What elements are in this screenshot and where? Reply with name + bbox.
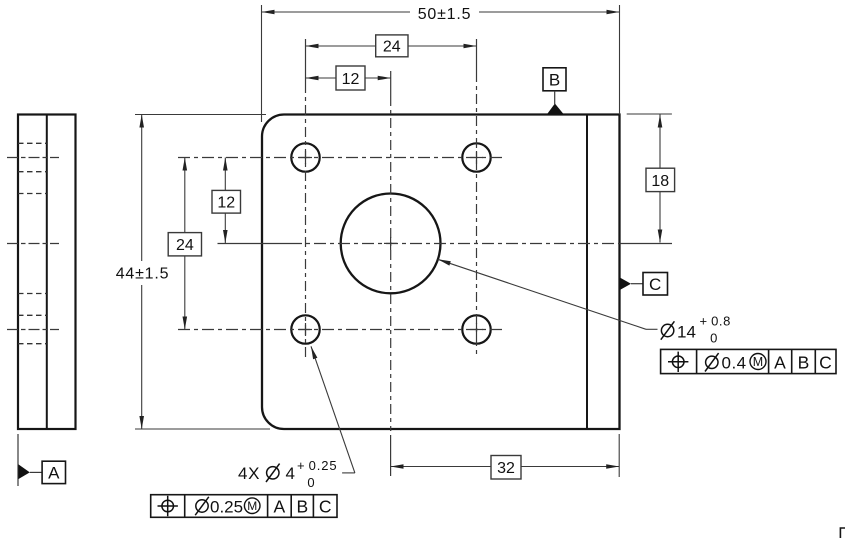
- svg-text:A: A: [48, 464, 60, 483]
- dim 32 box: [491, 456, 521, 480]
- dim 18 arrows: [658, 115, 663, 243]
- datum B box: [543, 68, 566, 91]
- datum C triangle: [620, 278, 631, 291]
- hole center crosses: [299, 151, 483, 336]
- dim 50 line: [262, 11, 620, 13]
- dim 32 arrows: [391, 464, 620, 469]
- datum A extension line: [17, 434, 19, 486]
- dim 24 left line: [184, 158, 186, 330]
- hidden line top hole lower: [18, 171, 47, 173]
- fcf1 M circle: [244, 498, 260, 514]
- side view inner edge line: [46, 115, 48, 430]
- fcf1 position symbol: [158, 496, 178, 516]
- svg-text:12: 12: [217, 195, 235, 212]
- datum A box: [42, 461, 65, 483]
- leader arrow small hole: [311, 346, 317, 359]
- centerline side top holes: [7, 157, 59, 159]
- svg-text:B: B: [549, 71, 560, 90]
- dim 18 extension top: [627, 113, 672, 115]
- svg-text:C: C: [319, 496, 332, 516]
- side view outline: [18, 115, 76, 430]
- svg-text:0.4: 0.4: [722, 354, 747, 373]
- svg-text:50±1.5: 50±1.5: [418, 6, 472, 23]
- datum B leader: [554, 91, 556, 104]
- dim 12 left box: [212, 190, 241, 213]
- dim 24 top box: [376, 35, 408, 57]
- datum A triangle: [18, 464, 30, 479]
- fcf2 M circle: [750, 354, 766, 370]
- dim 24 left arrows: [183, 158, 188, 330]
- big center hole: [341, 194, 441, 294]
- plate outline: [262, 115, 620, 430]
- centerline side big hole: [7, 243, 59, 245]
- dim 44 arrows: [139, 115, 144, 430]
- datum B triangle: [547, 104, 564, 115]
- dim 12 left arrows: [223, 158, 228, 244]
- dim 50 extension line right: [619, 5, 621, 115]
- dim 18 box: [646, 168, 675, 191]
- svg-text:M: M: [247, 499, 257, 513]
- dim 12 left line: [224, 158, 226, 244]
- datum C box: [643, 273, 668, 296]
- centerline horizontal plate center: [218, 243, 673, 245]
- svg-text:14: 14: [677, 323, 696, 342]
- fcf1 diameter symbol: [195, 497, 209, 515]
- svg-text:C: C: [819, 353, 832, 373]
- hidden line big hole lower: [18, 293, 47, 295]
- dim 24 top line: [306, 45, 477, 47]
- svg-text:18: 18: [651, 173, 669, 190]
- dim 24 top arrows: [306, 44, 477, 49]
- svg-text:B: B: [798, 353, 810, 373]
- fcf1 outer box: [151, 495, 337, 518]
- svg-text:C: C: [649, 275, 661, 294]
- callout Ø14 diameter symbol: [661, 321, 675, 339]
- dim 12 top box: [336, 66, 365, 90]
- svg-text:24: 24: [383, 39, 401, 56]
- svg-text:24: 24: [176, 237, 194, 254]
- dim 50 extension line left: [261, 5, 263, 122]
- hole bottom-right: [462, 315, 490, 343]
- svg-text:A: A: [774, 353, 786, 373]
- centerline side bottom holes: [7, 329, 59, 331]
- leader line big hole: [438, 259, 658, 329]
- hole top-right: [462, 143, 490, 171]
- centerline row bottom holes: [178, 329, 503, 331]
- hidden line bottom hole upper: [18, 314, 47, 316]
- centerline vertical plate center: [390, 71, 392, 476]
- svg-text:44±1.5: 44±1.5: [116, 266, 170, 283]
- datum A leader: [30, 471, 42, 473]
- svg-text:0.25: 0.25: [210, 497, 243, 516]
- svg-text:4: 4: [286, 464, 295, 483]
- dim 44 extension bottom: [135, 428, 270, 430]
- svg-text:B: B: [296, 496, 308, 516]
- dim 18 line: [659, 115, 661, 243]
- centerline row top holes: [178, 157, 503, 159]
- dim 44 line: [141, 115, 143, 430]
- svg-text:A: A: [274, 496, 286, 516]
- dim 44 extension top: [135, 114, 266, 116]
- dim 24 left box: [168, 233, 201, 256]
- dim 50 arrows: [262, 10, 620, 15]
- dim 12 top line: [306, 77, 391, 79]
- dim 32 line: [391, 466, 620, 468]
- fcf2 position symbol: [668, 352, 688, 372]
- svg-text:+0.25: +0.25: [297, 458, 338, 473]
- callout Ø4 diameter symbol: [266, 464, 280, 482]
- border corner mark bottom-right: [840, 528, 845, 538]
- datum C leader: [631, 283, 643, 285]
- svg-text:4X: 4X: [238, 464, 260, 483]
- svg-text:0: 0: [710, 331, 717, 346]
- hidden line big hole upper: [18, 193, 47, 195]
- hidden line bottom hole lower: [18, 343, 47, 345]
- svg-text:0: 0: [307, 475, 314, 490]
- svg-text:M: M: [753, 355, 763, 369]
- hole top-left: [291, 143, 319, 171]
- plate right inner edge line: [586, 115, 588, 430]
- big hole center cross: [384, 237, 397, 250]
- fcf2 diameter symbol: [705, 353, 719, 371]
- leader line small hole: [311, 346, 355, 473]
- hidden line top hole upper: [18, 142, 47, 144]
- centerline column right holes: [476, 39, 478, 357]
- dim 32 extension right: [618, 434, 620, 477]
- svg-text:12: 12: [342, 71, 360, 88]
- dim 12 top arrows: [306, 76, 391, 81]
- leader arrow big hole: [438, 259, 451, 265]
- fcf2 outer box: [661, 349, 836, 373]
- centerline column left holes: [305, 39, 307, 357]
- svg-text:+0.8: +0.8: [700, 314, 731, 329]
- hole bottom-left: [291, 315, 319, 343]
- svg-text:32: 32: [497, 460, 515, 477]
